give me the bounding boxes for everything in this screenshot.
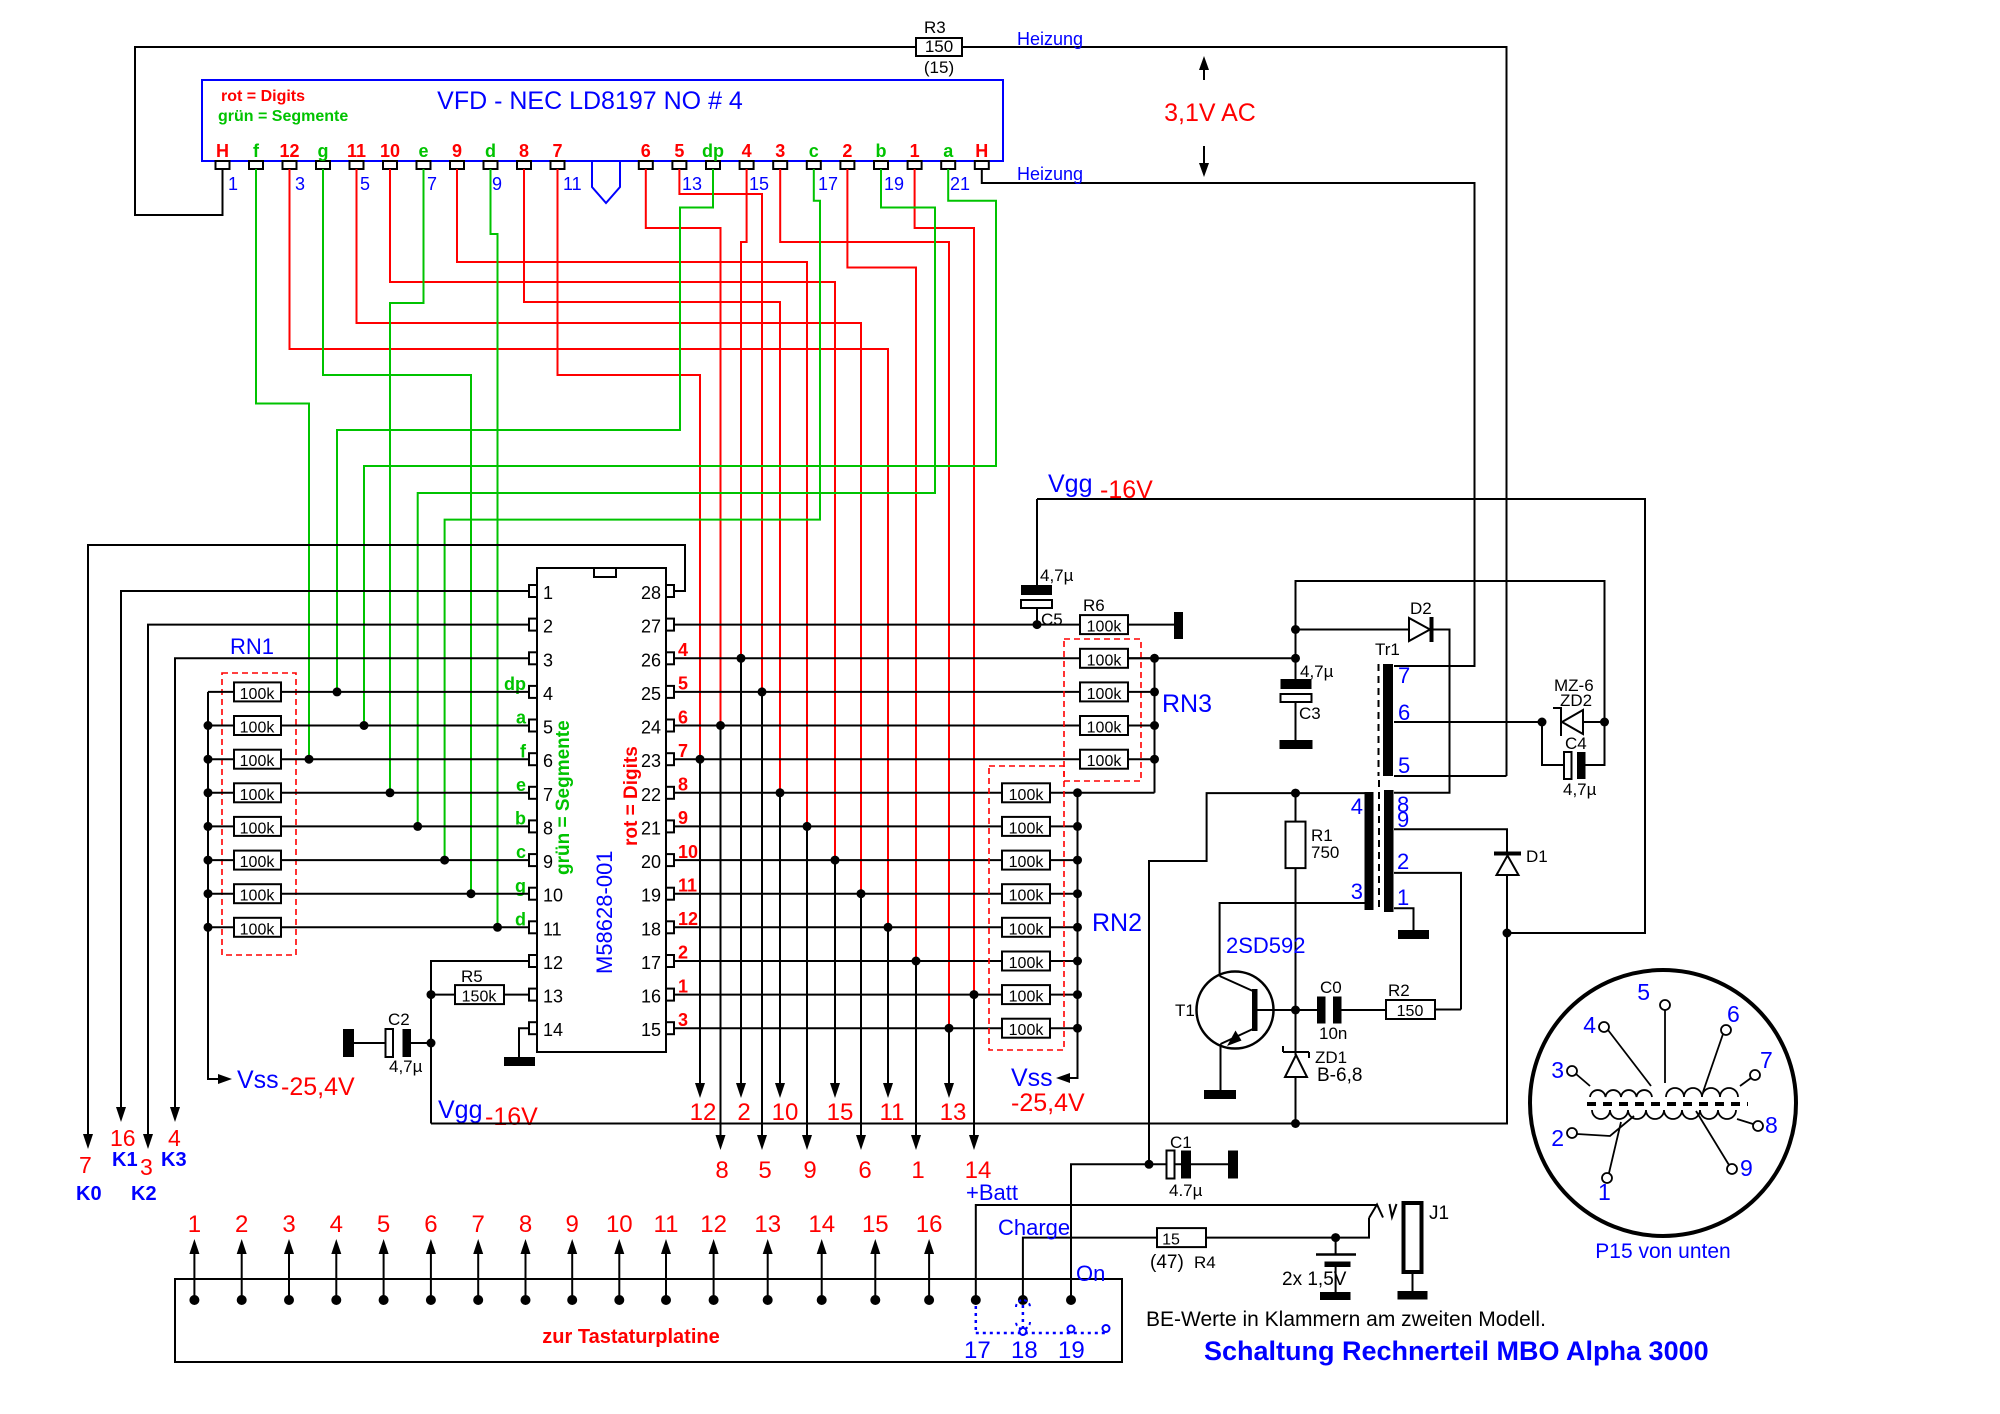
capacitor C4 4,7u [1542, 722, 1564, 765]
svg-text:2: 2 [1397, 849, 1409, 874]
P15 pin 9 [1727, 1164, 1737, 1174]
svg-text:150: 150 [1397, 1003, 1424, 1020]
wire: On from keyboard pin19 to C1 node [1071, 1164, 1228, 1300]
svg-text:4: 4 [1351, 794, 1363, 819]
svg-text:4: 4 [742, 141, 752, 161]
svg-text:Charge: Charge [998, 1215, 1070, 1240]
wire: digit 3 [780, 169, 949, 1028]
capacitor C5 4,7u [1036, 499, 1038, 585]
svg-text:Vgg: Vgg [1048, 470, 1092, 498]
svg-text:100k: 100k [1009, 787, 1045, 804]
svg-text:100k: 100k [1087, 753, 1123, 770]
zener ZD2 MZ-6 [1538, 718, 1547, 727]
resistor network RN1 dashed box [222, 673, 296, 955]
wire: Charge from keyboard pin18 to R4 [1023, 1238, 1157, 1300]
svg-text:(15): (15) [924, 58, 954, 77]
svg-text:15: 15 [827, 1099, 854, 1126]
svg-text:5: 5 [758, 1157, 771, 1184]
keyboard connector box [175, 1279, 1122, 1362]
svg-text:9: 9 [492, 174, 502, 194]
svg-text:100k: 100k [240, 921, 276, 938]
svg-text:4: 4 [330, 1211, 343, 1238]
svg-text:d: d [485, 141, 496, 161]
wire: Tr1 pin3 to T1 collector [1220, 903, 1365, 976]
wire: IC pin23 row [674, 758, 1080, 760]
svg-text:ZD2: ZD2 [1560, 691, 1592, 710]
svg-text:C3: C3 [1299, 704, 1321, 723]
P15 pin 4 [1599, 1022, 1609, 1032]
svg-text:100k: 100k [1009, 820, 1045, 837]
wire: IC pin12 to Vgg rail [431, 961, 529, 1124]
svg-text:10: 10 [772, 1099, 799, 1126]
svg-text:5: 5 [377, 1211, 390, 1238]
svg-text:10: 10 [678, 842, 698, 862]
svg-text:1: 1 [1598, 1179, 1611, 1205]
resistor network RN2 dashed box [989, 766, 1064, 1050]
keyboard pins 1-16 with arrows [189, 1239, 934, 1305]
svg-text:7: 7 [427, 174, 437, 194]
wire: IC pin27 row to R6 [674, 624, 1080, 626]
svg-text:5: 5 [674, 141, 684, 161]
svg-text:R2: R2 [1388, 981, 1410, 1000]
connector J1 [1404, 1203, 1422, 1272]
wire: digit 7 [558, 169, 701, 759]
svg-text:RN1: RN1 [230, 634, 274, 659]
capacitor C3 4,7u [1295, 630, 1297, 680]
svg-text:100k: 100k [240, 820, 276, 837]
RN1 resistors R 100k x8 with row wires [208, 682, 529, 938]
svg-text:2: 2 [235, 1211, 248, 1238]
svg-text:8: 8 [519, 1211, 532, 1238]
RN3 bus [1154, 658, 1156, 793]
svg-text:Tr1: Tr1 [1375, 640, 1400, 659]
svg-text:12: 12 [543, 953, 563, 973]
svg-text:C2: C2 [388, 1010, 410, 1029]
svg-text:11: 11 [543, 919, 562, 939]
node: Heizung AC span arrows [1203, 64, 1205, 80]
wire: Tr1 pin2 to R2 [1394, 873, 1461, 1010]
P15 upper winding [1590, 1090, 1652, 1097]
svg-text:Vgg: Vgg [438, 1096, 482, 1124]
svg-text:2: 2 [1551, 1125, 1564, 1151]
VFD pin stubs [216, 161, 989, 169]
svg-text:Vss: Vss [237, 1066, 279, 1094]
svg-text:RN3: RN3 [1162, 690, 1212, 718]
P15 pin 5 [1660, 1000, 1670, 1010]
capacitor C0 10n [1291, 1006, 1300, 1015]
P15 core dashed line [1587, 1102, 1748, 1106]
svg-text:100k: 100k [1087, 686, 1123, 703]
svg-text:2: 2 [737, 1099, 750, 1126]
capacitor C2 4,7u [343, 1029, 354, 1057]
svg-text:M58628-001: M58628-001 [592, 850, 617, 974]
svg-text:21: 21 [641, 818, 661, 838]
svg-text:750: 750 [1311, 843, 1339, 862]
svg-text:5: 5 [543, 718, 553, 738]
svg-text:C5: C5 [1041, 610, 1063, 629]
resistor R6 100k [1080, 615, 1128, 634]
svg-text:10n: 10n [1319, 1024, 1347, 1043]
diode D2 [1291, 625, 1300, 634]
svg-text:4: 4 [1583, 1012, 1596, 1038]
junction dots: segment wires on RN1 rows [305, 687, 503, 931]
svg-text:26: 26 [641, 650, 661, 670]
svg-text:3: 3 [295, 174, 305, 194]
wire: digit 5 [679, 169, 762, 692]
resistor network RN3 dashed box [1064, 639, 1141, 781]
svg-text:f: f [253, 141, 260, 161]
svg-text:15: 15 [1162, 1232, 1180, 1249]
svg-text:21: 21 [950, 174, 970, 194]
svg-text:3: 3 [775, 141, 785, 161]
svg-text:18: 18 [1011, 1337, 1038, 1364]
svg-text:11: 11 [654, 1211, 679, 1238]
svg-text:100k: 100k [240, 854, 276, 871]
svg-text:100k: 100k [1009, 888, 1045, 905]
svg-text:12: 12 [700, 1211, 727, 1238]
svg-text:1: 1 [678, 976, 688, 996]
svg-text:b: b [876, 141, 887, 161]
svg-text:100k: 100k [240, 787, 276, 804]
svg-text:8: 8 [715, 1157, 728, 1184]
resistor R1 750 [1295, 793, 1297, 822]
svg-text:11: 11 [347, 141, 366, 161]
svg-text:R4: R4 [1194, 1253, 1216, 1272]
svg-text:5: 5 [678, 674, 688, 694]
svg-text:K2: K2 [131, 1183, 157, 1205]
svg-text:9: 9 [566, 1211, 579, 1238]
P15 pin 6 [1721, 1025, 1731, 1035]
IC pin stubs right [666, 585, 674, 1034]
svg-text:10: 10 [380, 141, 400, 161]
wire: digit 6 [646, 169, 721, 726]
svg-text:K0: K0 [76, 1183, 102, 1205]
svg-text:T1: T1 [1175, 1001, 1195, 1020]
svg-text:VFD - NEC LD8197 NO # 4: VFD - NEC LD8197 NO # 4 [437, 87, 743, 115]
svg-text:BE-Werte in Klammern am zweite: BE-Werte in Klammern am zweiten Modell. [1146, 1308, 1546, 1331]
wire: digit 9 [457, 169, 807, 826]
wire: D1 anode node down to Vgg bottom rail [431, 933, 1507, 1124]
svg-text:100k: 100k [240, 888, 276, 905]
svg-text:17: 17 [641, 953, 661, 973]
svg-text:14: 14 [808, 1211, 835, 1238]
wire: digit 8 [524, 169, 780, 793]
svg-text:14: 14 [543, 1020, 563, 1040]
ground [504, 1057, 535, 1066]
svg-text:C1: C1 [1170, 1133, 1192, 1152]
svg-text:150: 150 [925, 37, 953, 56]
svg-text:23: 23 [641, 751, 661, 771]
svg-text:16: 16 [110, 1125, 136, 1151]
svg-text:18: 18 [641, 919, 661, 939]
wire: segment d (to RN1 row 11) [491, 169, 498, 927]
resistor R2 150 [1386, 1000, 1435, 1019]
svg-text:6: 6 [543, 751, 553, 771]
svg-text:100k: 100k [1009, 955, 1045, 972]
VFD display box [202, 80, 1003, 161]
svg-text:100k: 100k [1087, 720, 1123, 737]
svg-text:100k: 100k [240, 720, 276, 737]
P15 pin 1 [1602, 1173, 1612, 1183]
svg-text:3,1V AC: 3,1V AC [1164, 99, 1256, 127]
svg-text:-16V: -16V [1100, 476, 1153, 504]
wire: segment g (to RN1 row 10) [323, 169, 471, 894]
svg-text:1: 1 [188, 1211, 201, 1238]
svg-text:3: 3 [282, 1211, 295, 1238]
keyboard pins 17-19 dots [971, 1295, 981, 1305]
resistor R3 [916, 38, 962, 56]
P15 lower winding [1592, 1110, 1736, 1119]
svg-text:6: 6 [678, 707, 688, 727]
connector P15 view circle [1530, 970, 1796, 1236]
svg-text:P15 von unten: P15 von unten [1595, 1240, 1730, 1263]
svg-text:K3: K3 [161, 1149, 187, 1171]
svg-text:5: 5 [1398, 753, 1410, 778]
wire: Tr1 pin9 to D1 [1394, 829, 1507, 852]
IC U1 M58628-001 body [537, 568, 666, 1052]
svg-text:4,7µ: 4,7µ [389, 1057, 423, 1076]
svg-text:12: 12 [690, 1099, 717, 1126]
svg-text:H: H [975, 141, 988, 161]
RN2 resistors 100k x8 [1002, 783, 1050, 1039]
svg-text:R6: R6 [1083, 596, 1105, 615]
wire: heater from VFD pin H(right) to transformer pin 7 column [982, 169, 1475, 666]
svg-text:RN2: RN2 [1092, 909, 1142, 937]
svg-text:4,7µ: 4,7µ [1300, 662, 1334, 681]
wire: IC pin24 row [674, 725, 1080, 727]
IC pin numbers left 1-14 [543, 583, 563, 1040]
svg-text:28: 28 [641, 583, 661, 603]
transformer Tr1 lower winding [1378, 780, 1380, 910]
svg-text:c: c [809, 141, 819, 161]
resistor R4 15/(47) [1157, 1228, 1206, 1247]
svg-text:13: 13 [543, 987, 563, 1007]
wire: IC pin3 to K3 arrow [175, 658, 529, 1107]
svg-text:Heizung: Heizung [1017, 164, 1083, 184]
wire: heater top line from VFD pin H(left) to R3 and right column [135, 47, 916, 215]
svg-text:15: 15 [862, 1211, 889, 1238]
svg-text:16: 16 [641, 987, 661, 1007]
P15 pin 7 [1750, 1070, 1760, 1080]
svg-text:4: 4 [543, 684, 553, 704]
svg-text:8: 8 [543, 818, 553, 838]
VFD pin position numbers [228, 174, 970, 194]
P15 pin 3 [1567, 1066, 1577, 1076]
svg-text:100k: 100k [240, 686, 276, 703]
wire: D2 cathode to transformer pin 8 [1394, 630, 1450, 793]
svg-text:6: 6 [858, 1157, 871, 1184]
svg-text:J1: J1 [1429, 1203, 1449, 1224]
wire: D2 anode up-over to ZD2 cathode node [1296, 581, 1605, 722]
svg-text:g: g [318, 141, 329, 161]
svg-text:grün = Segmente: grün = Segmente [553, 720, 574, 875]
svg-text:19: 19 [1058, 1337, 1085, 1364]
svg-text:rot = Digits: rot = Digits [621, 746, 642, 846]
wire: digit 2 [847, 169, 916, 961]
wire: digit 10 [390, 169, 835, 860]
svg-text:2: 2 [678, 943, 688, 963]
svg-text:19: 19 [641, 886, 661, 906]
wire: digit 1 [915, 169, 974, 995]
IC pin numbers right 28-15 [641, 583, 661, 1040]
wire: IC pin1 to K1 arrow [121, 591, 529, 1107]
zener ZD1 B-6,8 [1295, 1010, 1297, 1055]
svg-text:19: 19 [884, 174, 904, 194]
wire: digit 11 [357, 169, 862, 894]
wire: digit 4 [741, 169, 747, 658]
VFD pin name labels [216, 141, 988, 161]
P15 pin 8 [1753, 1121, 1763, 1131]
IC rows 22..15 to RN2 [674, 792, 1155, 794]
junction dots: digit wires on IC right rows [696, 654, 979, 1033]
svg-text:100k: 100k [1009, 854, 1045, 871]
battery 2x 1,5V [1331, 1233, 1340, 1242]
wire: IC pin28 to K0 arrow [88, 545, 685, 1134]
wire: segment a (to RN1 row 5) [364, 169, 996, 726]
wire: Tr1 pin5 to R3 heater column [1394, 775, 1507, 777]
wire: Tr1 pin6 to ZD2 [1394, 721, 1542, 723]
svg-text:D1: D1 [1526, 847, 1548, 866]
svg-text:9: 9 [452, 141, 462, 161]
svg-text:7: 7 [1398, 663, 1410, 688]
svg-text:12: 12 [678, 909, 698, 929]
svg-text:grün = Segmente: grün = Segmente [218, 108, 348, 125]
svg-text:1: 1 [911, 1157, 924, 1184]
wire: IC pin25 row [674, 691, 1080, 693]
svg-text:4: 4 [678, 640, 688, 660]
svg-text:100k: 100k [1009, 921, 1045, 938]
IC segment letters (green) left of pins [504, 674, 527, 929]
svg-text:Schaltung Rechnerteil MBO Alph: Schaltung Rechnerteil MBO Alpha 3000 [1204, 1336, 1709, 1366]
svg-text:R5: R5 [461, 967, 483, 986]
RN1 left bus [208, 692, 224, 1079]
svg-text:K1: K1 [112, 1149, 138, 1171]
wire: digit drops continue to keyboard arrows row2 [720, 726, 722, 1136]
svg-text:6: 6 [424, 1211, 437, 1238]
labels: arrow row1 [690, 1099, 967, 1126]
svg-text:7: 7 [472, 1211, 485, 1238]
svg-text:H: H [216, 141, 229, 161]
svg-text:150k: 150k [462, 989, 498, 1006]
svg-text:6: 6 [1727, 1001, 1740, 1027]
wire: Tr1 pin4 to R1 node and down to C1 node [1149, 793, 1365, 1164]
wire: segment e (to RN1 row 7) [390, 169, 424, 793]
svg-text:10: 10 [543, 886, 563, 906]
IC pin stubs left [529, 585, 537, 1034]
resistor R5 150k [431, 994, 529, 996]
svg-text:100k: 100k [240, 753, 276, 770]
svg-text:100k: 100k [1087, 619, 1123, 636]
svg-text:10: 10 [606, 1211, 633, 1238]
svg-text:9: 9 [803, 1157, 816, 1184]
svg-text:4: 4 [168, 1125, 181, 1151]
svg-text:25: 25 [641, 684, 661, 704]
svg-text:R3: R3 [924, 18, 946, 37]
svg-text:15: 15 [749, 174, 769, 194]
RN3 resistors 100k x4 [1080, 649, 1155, 770]
svg-text:7: 7 [678, 741, 688, 761]
wire: +Batt from keyboard pin17 [976, 1205, 1377, 1300]
wire: segment c (to RN1 row 9) [445, 169, 820, 860]
wire: IC pin2 to K2 arrow [148, 625, 529, 1134]
svg-text:4,7µ: 4,7µ [1040, 566, 1074, 585]
svg-text:13: 13 [682, 174, 702, 194]
transformer Tr1 upper winding [1378, 664, 1380, 776]
svg-text:7: 7 [552, 141, 562, 161]
svg-text:5: 5 [1637, 979, 1650, 1005]
wire: IC pin26 row (digit 4) to C3 node [674, 657, 1296, 659]
svg-text:3: 3 [678, 1010, 688, 1030]
svg-text:9: 9 [543, 852, 553, 872]
svg-text:B-6,8: B-6,8 [1317, 1065, 1362, 1086]
svg-text:17: 17 [964, 1337, 991, 1364]
svg-text:1: 1 [910, 141, 920, 161]
svg-text:-25,4V: -25,4V [1011, 1089, 1085, 1117]
svg-text:9: 9 [1740, 1155, 1753, 1181]
svg-text:11: 11 [678, 875, 697, 895]
svg-text:3: 3 [140, 1154, 153, 1180]
svg-text:On: On [1076, 1261, 1105, 1286]
svg-text:(47): (47) [1150, 1252, 1184, 1273]
svg-text:Heizung: Heizung [1017, 29, 1083, 49]
svg-text:zur Tastaturplatine: zur Tastaturplatine [542, 1326, 719, 1348]
svg-text:1: 1 [228, 174, 238, 194]
terminal bar after R6 [1174, 612, 1183, 639]
svg-text:7: 7 [1760, 1047, 1773, 1073]
svg-text:7: 7 [543, 785, 553, 805]
svg-text:3: 3 [543, 650, 553, 670]
wire: digit 12 (VFD pin12 to IC row 18) [290, 169, 889, 927]
svg-text:8: 8 [678, 775, 688, 795]
svg-text:1: 1 [543, 583, 553, 603]
svg-text:8: 8 [1765, 1112, 1778, 1138]
capacitor C1 4.7u [1167, 1151, 1175, 1179]
svg-text:rot = Digits: rot = Digits [221, 88, 305, 105]
RN2 bus and right Vss arrow [1064, 793, 1078, 1078]
svg-text:15: 15 [641, 1020, 661, 1040]
svg-text:Vss: Vss [1011, 1064, 1053, 1092]
svg-text:2SD592: 2SD592 [1226, 933, 1306, 958]
svg-text:a: a [943, 141, 954, 161]
svg-text:24: 24 [641, 718, 661, 738]
wire: digit drops continue to keyboard arrows row1 [699, 759, 701, 1083]
svg-text:C4: C4 [1565, 734, 1587, 753]
svg-text:2x 1,5V: 2x 1,5V [1282, 1269, 1347, 1290]
svg-text:3: 3 [1351, 879, 1363, 904]
IC digit numbers (red) right of pins [678, 640, 698, 1030]
svg-text:20: 20 [641, 852, 661, 872]
switch linkage dotted (blue) [976, 1305, 1108, 1333]
grid funnel symbol [592, 161, 620, 203]
svg-text:17: 17 [818, 174, 838, 194]
svg-text:-25,4V: -25,4V [281, 1073, 355, 1101]
svg-text:C0: C0 [1320, 978, 1342, 997]
svg-text:2: 2 [842, 141, 852, 161]
svg-text:6: 6 [641, 141, 651, 161]
svg-text:3: 3 [1551, 1057, 1564, 1083]
switch contact marks at J1 [1369, 1205, 1383, 1219]
transistor T1 2SD592 [1197, 972, 1274, 1049]
svg-text:11: 11 [563, 174, 582, 194]
svg-text:100k: 100k [1009, 989, 1045, 1006]
keyboard pin number labels 1-16 [188, 1211, 943, 1238]
svg-text:+Batt: +Batt [966, 1180, 1018, 1205]
svg-text:dp: dp [702, 141, 724, 161]
svg-text:D2: D2 [1410, 599, 1432, 618]
wire: Tr1 pin1 to ground [1394, 908, 1414, 930]
svg-text:22: 22 [641, 785, 661, 805]
wire: segment b (to RN1 row 8) [418, 169, 935, 826]
